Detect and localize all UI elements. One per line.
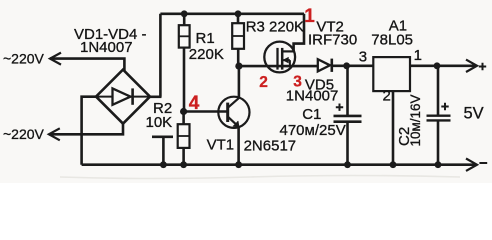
wire R2 bottom lead to bottom rail (182, 148, 185, 165)
resistor R1 (179, 25, 190, 47)
svg-text:2: 2 (259, 74, 268, 91)
label minus sign at output (479, 162, 487, 164)
bridge internal diode symbol (96, 96, 150, 98)
wire R3 top lead from top rail (237, 14, 240, 23)
junction dot top rail R3 (235, 10, 242, 17)
svg-text:~220V: ~220V (3, 126, 45, 142)
capacitor C2 plates (427, 114, 451, 116)
diode VD5 1N4007 (318, 59, 330, 71)
wire neutral stub to bottom rail (152, 137, 173, 165)
wire R1 top lead from top rail (183, 14, 186, 25)
arrowhead output plus (466, 60, 477, 72)
label plus sign at output (479, 63, 486, 70)
wire VT1 base from node 4 (184, 110, 228, 113)
svg-text:220K: 220K (189, 46, 224, 63)
svg-text:78L05: 78L05 (371, 32, 413, 49)
wire drain loop right side (294, 14, 304, 52)
wire C1 top lead from output node (346, 66, 349, 115)
junction C2 output node (434, 62, 441, 69)
label plus sign at C1 (336, 104, 343, 111)
transistor VT1 2N6517 (218, 97, 249, 128)
wire VT1 collector up to gate node (238, 66, 241, 98)
wire gate node to VT2 gate and source line to VD5 (239, 65, 318, 68)
svg-text:5V: 5V (464, 104, 484, 122)
svg-text:VT1: VT1 (207, 137, 235, 154)
wire C2 bottom lead to bottom rail (437, 121, 440, 165)
label plus sign at C2 (441, 103, 448, 110)
svg-text:~220V: ~220V (3, 50, 45, 66)
resistor R2 (178, 124, 190, 148)
junction node 4 (180, 108, 187, 115)
svg-text:10K: 10K (146, 114, 173, 131)
arrowhead ~220V bottom (49, 128, 60, 140)
wire A1 output pin 1 to plus terminal (410, 65, 475, 68)
junction bottom rail VT1 emitter (235, 161, 242, 168)
junction bottom rail C1 (344, 161, 351, 168)
svg-text:1: 1 (414, 47, 422, 64)
svg-text:3: 3 (293, 73, 302, 90)
svg-text:2: 2 (383, 88, 391, 105)
bridge rectifier VD1-VD4 diamond (96, 70, 150, 124)
junction dot top rail R1 (181, 10, 188, 17)
wire AC bottom input from ~220V arrow to bridge bottom vertex (49, 123, 123, 134)
capacitor C1 plates (334, 115, 362, 118)
wire left edge from bridge plus output up to top rail (159, 14, 162, 97)
MOSFET VT2 IRF730 (264, 42, 295, 73)
wire bridge minus output left vertex down to bottom rail (82, 97, 96, 165)
junction bottom rail A1 pin 2 (390, 161, 397, 168)
wire A1 ground pin 2 to bottom rail (392, 91, 395, 165)
junction VD5 C1 node (343, 62, 350, 69)
regulator A1 78L05 box (373, 57, 410, 91)
wire R1 bottom lead down to node 4 (183, 48, 186, 112)
wire AC top input from ~220V arrow to bridge top vertex (50, 59, 124, 71)
svg-text:1: 1 (304, 6, 315, 27)
wire R3 bottom lead down to gate node (237, 49, 240, 66)
faint scan artifact streak (60, 176, 460, 179)
resistor R3 (232, 23, 244, 49)
svg-text:R1: R1 (196, 30, 215, 47)
wire VD5 cathode to A1 input pin 3 (332, 65, 374, 68)
arrowhead output minus (466, 159, 477, 171)
wire bottom rail (82, 163, 475, 166)
svg-text:IRF730: IRF730 (308, 32, 357, 49)
svg-text:R3 220K: R3 220K (246, 19, 304, 36)
wire VT1 emitter down to bottom rail (237, 127, 240, 164)
arrowhead ~220V top (50, 53, 61, 65)
wire R2 top lead from node 4 (182, 112, 185, 125)
junction bottom rail C2 (435, 161, 442, 168)
svg-text:C1: C1 (302, 106, 321, 123)
junction bottom rail neutral stub (160, 161, 167, 168)
svg-text:1N4007: 1N4007 (80, 39, 133, 56)
wire top rail (160, 13, 304, 16)
svg-text:2N6517: 2N6517 (244, 138, 297, 155)
wire bridge right vertex to left edge (149, 96, 162, 99)
wire C2 top lead from output node (437, 66, 440, 115)
svg-text:4: 4 (189, 93, 200, 114)
wire C1 bottom lead to bottom rail (346, 123, 349, 165)
svg-text:3: 3 (359, 48, 367, 65)
svg-text:10м/16V: 10м/16V (408, 94, 423, 146)
junction gate node (235, 63, 242, 70)
svg-text:470м/25V: 470м/25V (280, 122, 346, 139)
junction bottom rail R2 (180, 161, 187, 168)
